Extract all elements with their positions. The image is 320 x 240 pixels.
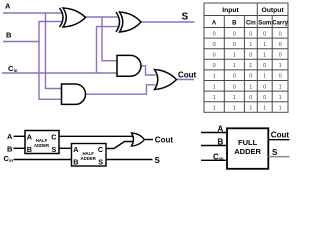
wire branch XOR1-out down into AND2 bbox=[102, 17, 118, 61]
and gate AND1 (A & B) bbox=[62, 84, 86, 104]
half adder box HA2 bbox=[72, 144, 107, 167]
svg-text:Cout: Cout bbox=[155, 135, 174, 144]
svg-text:ADDER: ADDER bbox=[234, 147, 261, 156]
svg-text:0: 0 bbox=[249, 74, 252, 80]
wire AND2 output into OR1 bbox=[141, 66, 156, 75]
svg-text:Input: Input bbox=[222, 7, 239, 14]
svg-text:0: 0 bbox=[249, 31, 252, 37]
or gate OR1 (carry) bbox=[155, 70, 177, 90]
wire Cin into full adder bbox=[201, 159, 227, 161]
wire A into full adder bbox=[201, 132, 227, 134]
wire XOR2 output to S bbox=[141, 21, 195, 23]
wire input B horizontal bbox=[3, 41, 40, 43]
svg-text:1: 1 bbox=[213, 95, 216, 101]
svg-text:1: 1 bbox=[233, 95, 236, 101]
svg-text:S: S bbox=[98, 157, 103, 166]
svg-text:0: 0 bbox=[213, 42, 216, 48]
svg-text:0: 0 bbox=[263, 95, 266, 101]
svg-text:1: 1 bbox=[233, 53, 236, 59]
svg-text:in: in bbox=[9, 158, 13, 163]
svg-text:B: B bbox=[27, 145, 32, 154]
wire AND1 output into OR1 bbox=[85, 85, 156, 94]
wire S out of full adder bbox=[268, 156, 289, 158]
svg-text:A: A bbox=[212, 20, 217, 26]
svg-text:0: 0 bbox=[279, 74, 282, 80]
svg-text:1: 1 bbox=[263, 106, 266, 112]
svg-text:1: 1 bbox=[249, 106, 252, 112]
wire branch B vertical and into XOR1/AND1 bbox=[39, 22, 62, 100]
svg-text:0: 0 bbox=[249, 95, 252, 101]
svg-text:0: 0 bbox=[263, 31, 266, 37]
wire HA2 C output jog up into OR2 bbox=[106, 142, 133, 149]
wire input Cin horizontal to AND2 bbox=[2, 72, 118, 74]
svg-text:1: 1 bbox=[263, 74, 266, 80]
wire branch A vertical into AND1 bbox=[46, 13, 63, 89]
svg-text:1: 1 bbox=[279, 84, 282, 90]
svg-text:ADDER: ADDER bbox=[81, 156, 97, 161]
xor gate XOR1 (A xor B) bbox=[60, 8, 86, 27]
svg-text:0: 0 bbox=[263, 63, 266, 69]
svg-text:1: 1 bbox=[213, 84, 216, 90]
wire Cin into HA2 B input bbox=[14, 159, 72, 161]
svg-text:S: S bbox=[182, 12, 189, 23]
svg-text:S: S bbox=[272, 148, 278, 157]
svg-text:Output: Output bbox=[261, 7, 284, 14]
svg-text:B: B bbox=[7, 144, 13, 153]
svg-text:Sum: Sum bbox=[258, 20, 271, 26]
svg-text:B: B bbox=[6, 31, 12, 40]
svg-text:A: A bbox=[7, 132, 13, 141]
wire input A horizontal bbox=[3, 12, 62, 14]
svg-text:1: 1 bbox=[279, 63, 282, 69]
svg-text:0: 0 bbox=[249, 53, 252, 59]
svg-text:A: A bbox=[5, 1, 11, 10]
wire B into HA1 bbox=[14, 147, 26, 149]
svg-text:0: 0 bbox=[233, 42, 236, 48]
svg-text:ADDER: ADDER bbox=[34, 143, 50, 148]
table subheader A B Cin Sum Carry bbox=[212, 20, 289, 26]
svg-text:1: 1 bbox=[233, 63, 236, 69]
wire HA1 S output to HA2 A input bbox=[59, 147, 72, 149]
svg-text:0: 0 bbox=[213, 63, 216, 69]
svg-text:1: 1 bbox=[213, 106, 216, 112]
svg-text:S: S bbox=[52, 145, 57, 154]
table data rows bbox=[213, 31, 282, 111]
wire A into HA1 bbox=[14, 135, 26, 137]
and gate AND2 (xor1 & Cin) bbox=[117, 55, 141, 76]
wire Cout out of full adder bbox=[268, 139, 289, 141]
svg-text:Cin: Cin bbox=[246, 20, 256, 26]
svg-text:Cout: Cout bbox=[178, 71, 197, 80]
svg-text:1: 1 bbox=[249, 63, 252, 69]
wire B into full adder bbox=[201, 145, 227, 147]
svg-text:0: 0 bbox=[279, 53, 282, 59]
wire HA2 S output bbox=[106, 159, 153, 161]
svg-text:B: B bbox=[73, 157, 78, 166]
svg-text:1: 1 bbox=[249, 42, 252, 48]
wire HA1 C output to OR2 top input bbox=[59, 135, 133, 137]
or gate OR2 (Cout) bbox=[132, 133, 145, 146]
full adder box bbox=[227, 128, 268, 169]
svg-text:0: 0 bbox=[233, 74, 236, 80]
svg-text:FULL: FULL bbox=[238, 138, 258, 147]
svg-text:0: 0 bbox=[279, 42, 282, 48]
svg-text:B: B bbox=[232, 20, 237, 26]
wire XOR1 output to XOR2 bbox=[85, 16, 119, 18]
wire branch Cin up into XOR2 bbox=[97, 27, 120, 73]
svg-text:A: A bbox=[73, 145, 78, 154]
svg-text:1: 1 bbox=[279, 106, 282, 112]
svg-text:0: 0 bbox=[213, 53, 216, 59]
svg-text:0: 0 bbox=[233, 84, 236, 90]
svg-text:A: A bbox=[27, 132, 32, 141]
svg-text:1: 1 bbox=[279, 95, 282, 101]
svg-text:C: C bbox=[98, 145, 103, 154]
svg-text:1: 1 bbox=[249, 84, 252, 90]
svg-text:1: 1 bbox=[263, 53, 266, 59]
svg-text:1: 1 bbox=[233, 106, 236, 112]
svg-text:0: 0 bbox=[263, 84, 266, 90]
svg-text:C: C bbox=[51, 132, 56, 141]
svg-text:0: 0 bbox=[213, 31, 216, 37]
wire OR1 output Cout bbox=[177, 79, 195, 81]
svg-text:Carry: Carry bbox=[272, 20, 288, 26]
svg-text:0: 0 bbox=[279, 31, 282, 37]
svg-text:1: 1 bbox=[213, 74, 216, 80]
wire OR2 output bbox=[145, 139, 154, 141]
svg-text:0: 0 bbox=[233, 31, 236, 37]
svg-text:1: 1 bbox=[263, 42, 266, 48]
svg-text:S: S bbox=[155, 156, 161, 165]
svg-text:Cout: Cout bbox=[271, 130, 290, 139]
truth table frame bbox=[204, 3, 288, 112]
half adder box HA1 bbox=[25, 131, 59, 154]
xor gate XOR2 (sum) bbox=[116, 12, 141, 32]
